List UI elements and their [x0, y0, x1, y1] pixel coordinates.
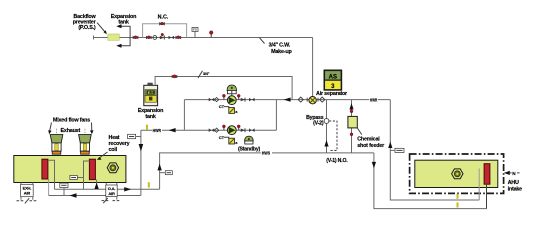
flow arrow up feeder top: [349, 103, 353, 109]
svg-text:CT: CT: [219, 104, 225, 109]
svg-text:tank: tank: [145, 114, 155, 120]
wire: pump manifold rectangle: [184, 100, 276, 131]
wire: bypass drop V-1: [326, 100, 328, 153]
check valve right of P1: [241, 98, 245, 102]
wire: coil 1 top connection: [48, 160, 55, 189]
wire: feeder drop: [351, 100, 353, 153]
wire: HWR return line to pumps: [141, 129, 185, 131]
wire: HWS riser visible below coil: [486, 184, 488, 209]
leader to coil 2: [97, 152, 108, 160]
wire: HWR drop to heat recovery coil: [139, 130, 144, 195]
intake flow arrow: [504, 171, 520, 176]
air flow dash above fan 2: [84, 129, 86, 134]
valve left of pump P2: [209, 128, 215, 132]
pressure gauge dome P2: [245, 136, 254, 144]
wire: HWS drop right and run to AHU coil: [372, 153, 487, 209]
valve with red dot x178.3: [176, 36, 182, 40]
svg-text:CT: CT: [219, 135, 225, 140]
pipe size label on expansion line: [198, 71, 210, 78]
relief valve with red cap: [209, 31, 213, 38]
chemical shot feeder vessel: [348, 116, 357, 128]
svg-text:AHU: AHU: [508, 180, 519, 186]
mixed flow fan 1: [50, 135, 63, 155]
flow switch tag on main line: [192, 27, 198, 37]
right AHU outer casing (dash-dot): [410, 154, 504, 193]
diamond fitting left of separator: [298, 97, 303, 102]
flow arrow left on main line: [284, 98, 291, 102]
vent valve right P2: [237, 125, 240, 130]
leader for make-up label: [260, 38, 265, 44]
svg-text:Chemical: Chemical: [357, 137, 380, 143]
mixed flow fan 2: [79, 135, 92, 155]
wire: coil return header lower: [55, 187, 160, 191]
CT sensor P2: [219, 135, 239, 145]
valve V-2 circle: [324, 119, 329, 124]
pressure gauge dome P1: [227, 85, 236, 96]
label: Chemical shot feeder: [357, 137, 385, 149]
label: Heat recovery coil: [109, 135, 130, 153]
tag HW at HWR corner: [128, 134, 141, 138]
label: Mixed flow fans: [53, 117, 90, 123]
wire: HWR header to coil 1: [49, 193, 141, 197]
label: Air separator: [316, 91, 348, 97]
svg-text:Air separator: Air separator: [316, 91, 348, 97]
svg-text:(V-2): (V-2): [313, 121, 324, 127]
tag AS 3: [324, 70, 341, 90]
flow arrow left on HWR line: [169, 128, 176, 132]
union tick left of separator: [306, 98, 308, 102]
outside air duct label box: [106, 183, 117, 200]
N.C. bypass loop: [143, 24, 187, 38]
svg-text:AS: AS: [329, 74, 337, 80]
svg-text:FS: FS: [193, 28, 197, 32]
svg-text:N.C.: N.C.: [158, 15, 169, 21]
leader to backflow preventer: [97, 23, 107, 35]
wire: HWS riser into AHU coil: [486, 184, 488, 209]
check valve right of P2: [241, 128, 245, 132]
label: AHU intake: [508, 180, 523, 193]
valve above feeder: [350, 110, 353, 113]
air separator AS-3: [309, 97, 316, 104]
leader arrows to fans: [48, 123, 93, 135]
svg-text:Exhaust: Exhaust: [61, 128, 81, 134]
wire: coil 2 top connection: [84, 161, 90, 189]
svg-text:(Standby): (Standby): [238, 146, 261, 152]
heat recovery coil 1: [42, 159, 48, 179]
wire: dashed V-2 bypass: [329, 121, 337, 151]
wire: coil 2 bottom connection: [94, 180, 98, 190]
wire: HWR riser into AHU coil (light): [478, 165, 480, 201]
air flow dash above fan 1: [56, 129, 58, 134]
valve V with red handle on main line x135.5: [133, 36, 139, 40]
yellow dash below AHU left: [148, 182, 150, 187]
globe valve x154.5: [153, 36, 157, 40]
duct break symbol outside air: [102, 198, 120, 203]
fan motor hexagon left AHU: [107, 163, 118, 173]
wire: main line from manifold to HWR right: [276, 99, 390, 101]
pump P2: [227, 126, 236, 135]
svg-text:(V-1) N.O.: (V-1) N.O.: [326, 158, 348, 164]
svg-text:E.T.: E.T.: [148, 91, 154, 95]
tag T-50 on HWR drop: [390, 148, 404, 152]
svg-text:3/4" C.W.: 3/4" C.W.: [269, 43, 291, 49]
duct break symbol exhaust: [17, 198, 38, 203]
wire: HWR drop from main and run to AHU coil (light): [388, 100, 479, 200]
yellow dash below right AHU: [457, 194, 459, 208]
svg-text:shot feeder: shot feeder: [357, 143, 385, 149]
wire: expansion tank line: [155, 77, 292, 100]
tag T-4 under AHU: [60, 183, 68, 195]
union tick right of separator: [317, 98, 319, 102]
sensor box on coil 2 line: [70, 176, 84, 180]
strainer P1: [214, 97, 218, 101]
exhaust air duct label box: [21, 183, 34, 200]
svg-text:AIR: AIR: [108, 191, 115, 196]
strainer P2: [214, 128, 218, 132]
svg-text:AIR: AIR: [24, 191, 31, 196]
vent valve right P1: [237, 94, 240, 99]
label: (V-1) N.O.: [326, 158, 348, 164]
expansion tank connection bracket with arrows: [116, 24, 130, 48]
svg-text:(P.O.S.): (P.O.S.): [78, 25, 96, 31]
wire: C.W. make-up main line: [94, 36, 313, 40]
svg-text:intake: intake: [508, 187, 523, 193]
valve on N.C. bypass: [159, 22, 165, 26]
svg-text:HWS: HWS: [262, 151, 271, 156]
wire: HWS supply line to AHU intake: [157, 153, 374, 189]
check valve x162.5: [160, 33, 165, 39]
expansion tank ET-1: [144, 83, 158, 106]
label: Bypass (V-2): [306, 115, 324, 127]
backflow preventer BFP (P.O.S.): [108, 34, 120, 40]
pump P1: [227, 96, 236, 105]
svg-text:Mixed flow fans: Mixed flow fans: [53, 117, 90, 123]
left AHU casing: [14, 156, 126, 183]
label: (Standby): [238, 146, 261, 152]
svg-text:HWR: HWR: [370, 97, 377, 102]
wire: HWR riser visible inside right AHU: [478, 169, 480, 201]
label: Expansion tank (middle): [138, 108, 163, 120]
vent valve left P1: [222, 94, 225, 99]
wire: make-up drop to air separator: [312, 38, 314, 97]
CT sensor P1: [219, 104, 239, 114]
svg-text:tank: tank: [118, 19, 128, 25]
label: Backflow preventer (P.O.S.): [73, 14, 97, 31]
svg-text:HWR: HWR: [153, 128, 161, 133]
svg-text:coil: coil: [109, 147, 118, 153]
valve right of P2: [249, 128, 255, 132]
label: Exhaust: [61, 128, 81, 134]
svg-text:3/4": 3/4": [203, 72, 210, 76]
vent valve left P2: [222, 125, 225, 130]
label: HWR on main line: [370, 97, 377, 102]
label: Expansion tank (top): [111, 14, 136, 26]
label: 3/4" C.W. Make-up: [269, 43, 293, 55]
svg-text:N: N: [512, 171, 516, 176]
tag T-1 on HWS riser: [160, 171, 173, 175]
intake coil right AHU: [484, 164, 490, 185]
right AHU inner plenum: [415, 160, 498, 187]
label: N.C.: [158, 15, 169, 21]
valve x171.3: [169, 36, 175, 40]
valve below feeder: [350, 133, 353, 136]
valve with red dot x148.8: [146, 36, 152, 40]
yellow dash above HWR corner: [146, 125, 148, 130]
label: HWR left: [153, 128, 161, 133]
fan motor hexagon right AHU: [452, 169, 463, 179]
valve left of pump P1: [209, 98, 215, 102]
svg-text:a: a: [235, 141, 238, 145]
label: HWS: [262, 151, 271, 156]
svg-text:a: a: [235, 110, 238, 114]
wire: coil 1 bottom connection (light): [48, 179, 50, 196]
valve right of P1: [249, 98, 255, 102]
leader to feeder label: [357, 128, 362, 135]
svg-text:Make-up: Make-up: [271, 49, 292, 55]
valve with red dot on expansion line: [172, 75, 178, 79]
diamond fitting right of separator: [320, 97, 325, 102]
flow arrow up on bypass drop: [324, 140, 328, 147]
heat recovery coil 2: [89, 159, 95, 179]
